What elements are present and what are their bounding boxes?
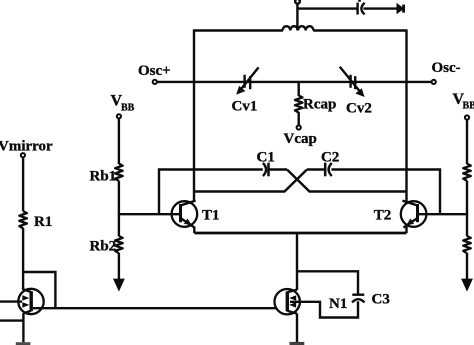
resistor Rcap <box>295 82 303 125</box>
svg-text:Vcap: Vcap <box>284 131 317 147</box>
wire T1 base line <box>118 213 180 215</box>
resistor R1 <box>19 211 27 228</box>
wire VBB down <box>118 118 120 164</box>
resistor right lower <box>463 236 471 253</box>
wire cross-couple right edge <box>332 170 441 215</box>
svg-text:C3: C3 <box>372 291 390 307</box>
transistor T2 <box>401 201 427 233</box>
wire capacitor to arrow <box>363 7 397 9</box>
svg-text:N1: N1 <box>329 296 347 312</box>
svg-text:Cv1: Cv1 <box>232 99 258 115</box>
Osc- terminal <box>432 80 436 84</box>
varactor Cv1 <box>236 67 258 94</box>
svg-text:Osc-: Osc- <box>432 60 461 76</box>
wire N1 source to ground <box>296 313 298 342</box>
wire Rb1 to Rb2 <box>118 181 120 236</box>
wire T2 base line <box>418 213 468 215</box>
capacitor C3 <box>352 295 364 303</box>
svg-text:BB: BB <box>121 102 135 113</box>
tank top wire right <box>313 29 406 31</box>
wire right chain mid <box>466 181 468 236</box>
resistor Rb2 <box>115 236 123 253</box>
wire right rail (Osc- node) <box>405 29 407 201</box>
wire top output line <box>297 7 356 9</box>
wire N1 drain <box>296 233 298 290</box>
supply terminal (top center) <box>295 0 300 4</box>
wire left rail (Osc+ node) <box>193 29 195 201</box>
varactor Cv2 <box>340 67 365 97</box>
wire M1 source to ground <box>22 313 24 342</box>
wire Vmirror down to R1 <box>22 157 24 211</box>
svg-text:R1: R1 <box>34 214 52 230</box>
wire crossing to C2 <box>307 168 325 170</box>
svg-text:Rb2: Rb2 <box>90 239 117 255</box>
wire varactor line <box>157 81 432 83</box>
wire right chain down to arrow <box>466 253 468 280</box>
wire M1 to N1 gate line <box>33 307 276 309</box>
MOSFET M1 (current mirror) <box>18 289 43 314</box>
ground (N1) <box>290 342 305 345</box>
wire C3 box top <box>297 271 358 295</box>
bias arrow down (right) <box>461 279 473 292</box>
wire emitter rail <box>194 232 406 235</box>
wire VB down <box>466 120 468 164</box>
coupling capacitor (top, unlabeled) <box>358 0 365 15</box>
resistor Rb1 <box>115 164 123 181</box>
wire C3 bottom / N1 gate loop <box>290 301 358 317</box>
wire cross-couple left edge <box>159 170 263 215</box>
resistor right upper <box>463 164 471 181</box>
wire cross diagonal (C1 to T2 collector side) <box>287 170 407 192</box>
V_B terminal (right) <box>465 115 469 119</box>
output arrow (right-pointing) <box>397 3 406 14</box>
Vcap terminal <box>297 125 301 129</box>
wire M1 gate stub (to left edge) <box>0 300 22 302</box>
wire C1 to crossing <box>269 168 288 170</box>
Osc+ terminal <box>153 80 157 84</box>
wire R1 down to M1 drain <box>22 228 24 290</box>
wire supply terminal to inductor center tap <box>296 4 298 31</box>
svg-text:Osc+: Osc+ <box>138 63 171 79</box>
wire T1 collector branch to crossing <box>194 170 307 192</box>
V_BB terminal (left) <box>117 114 121 118</box>
Vmirror terminal <box>21 153 25 157</box>
bias arrow down (left) <box>113 279 125 292</box>
inductor L (center-tapped) <box>283 26 314 30</box>
capacitor C1 <box>263 163 269 177</box>
wire lower-left stub (to left edge) <box>0 319 23 321</box>
capacitor C2 <box>325 163 332 177</box>
MOSFET N1 <box>275 289 300 314</box>
wire Rb2 down to arrow <box>118 253 120 280</box>
svg-text:Rcap: Rcap <box>303 97 336 113</box>
svg-text:T2: T2 <box>374 208 392 224</box>
transistor T1 <box>172 201 198 233</box>
svg-text:T1: T1 <box>202 208 220 224</box>
svg-text:Rb1: Rb1 <box>90 169 117 185</box>
ground (M1) <box>16 342 31 345</box>
svg-text:C1: C1 <box>257 149 275 165</box>
wire M1 diode-connect bracket <box>23 272 55 308</box>
svg-text:Cv2: Cv2 <box>346 101 372 117</box>
svg-text:BB: BB <box>463 100 474 111</box>
svg-text:C2: C2 <box>321 149 339 165</box>
svg-text:Vmirror: Vmirror <box>0 139 53 155</box>
tank top wire left <box>194 29 283 31</box>
